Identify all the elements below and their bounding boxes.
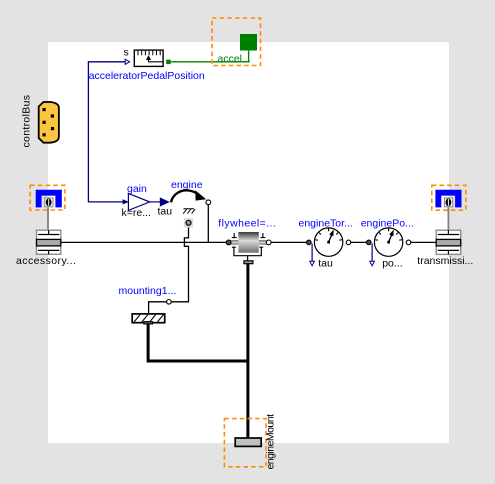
svg-text:controlBus: controlBus	[21, 95, 33, 148]
bus connector controlBus	[39, 102, 59, 143]
torque sensor engineTorque	[307, 228, 351, 266]
support hatch of engine	[183, 209, 195, 214]
arrowhead into gain	[123, 199, 129, 204]
cut connector accessory (blue bracket)	[36, 190, 62, 208]
flange of engine	[206, 200, 211, 205]
wire engine flange to shaft	[207, 205, 209, 243]
svg-text:mounting1...: mounting1...	[119, 285, 177, 297]
svg-text:acceleratorPedalPosition: acceleratorPedalPosition	[89, 70, 205, 82]
highlight frame accessoryCut	[30, 185, 65, 210]
block accel (green square icon)	[240, 34, 257, 51]
flange b of flywheel	[266, 240, 271, 245]
torque source engine (arc with arrow)	[171, 190, 206, 202]
output port (green square)	[166, 60, 171, 65]
shaft wire engineTorque to enginePower sensor	[351, 241, 367, 243]
power sensor enginePower	[367, 228, 411, 266]
wire accessory cut to box (gray)	[47, 208, 49, 231]
support connector of engine	[184, 218, 193, 227]
slider block acceleratorPedalPosition	[134, 50, 163, 66]
svg-text:engine: engine	[171, 179, 203, 191]
flywheel (inertia)	[229, 232, 268, 264]
svg-text:accel...: accel...	[218, 53, 251, 65]
shaft wire enginePower to transmission	[411, 241, 437, 243]
svg-text:transmissi...: transmissi...	[417, 255, 473, 267]
wire to accel (green)	[171, 51, 249, 62]
mounting1 (hatched box)	[132, 314, 165, 324]
svg-text:tau: tau	[318, 258, 333, 270]
flange a of flywheel	[226, 240, 231, 245]
svg-text:po...: po...	[382, 258, 402, 270]
svg-text:tau: tau	[158, 206, 173, 218]
highlight frame transmissionCut	[432, 185, 466, 210]
wire engine support to mounting1 (with hop)	[149, 227, 189, 314]
shaft wire accessory to flywheel	[61, 241, 227, 243]
highlight frame accel	[212, 18, 261, 66]
gain block (triangle)	[128, 193, 149, 210]
shaft wire flywheel to engineTorque sensor	[271, 241, 307, 243]
cut connector transmission (blue bracket)	[435, 190, 461, 208]
wire transmission cut to box (gray)	[447, 208, 449, 231]
transmission box	[436, 230, 461, 254]
arrowhead into engine tau input	[160, 197, 170, 206]
accessory box	[37, 230, 61, 254]
wire gain to engine (navy)	[150, 201, 161, 203]
wire accelerator signal (navy)	[88, 62, 125, 202]
svg-text:k=re...: k=re...	[122, 207, 151, 219]
svg-text:flywheel=...: flywheel=...	[218, 217, 275, 229]
engineMount (foot)	[235, 438, 261, 446]
wire mounting1 to engineMount (thick)	[148, 324, 248, 361]
highlight frame engineMount	[224, 419, 266, 467]
svg-text:engineMount: engineMount	[265, 414, 277, 470]
svg-text:accessory...: accessory...	[16, 255, 76, 267]
svg-text:s: s	[124, 46, 129, 58]
wire flywheel housing to engineMount (thick)	[246, 264, 249, 439]
input port acceleratorPedalPosition	[125, 59, 129, 64]
diagram canvas	[48, 42, 449, 443]
connector on mounting wire	[167, 300, 172, 305]
